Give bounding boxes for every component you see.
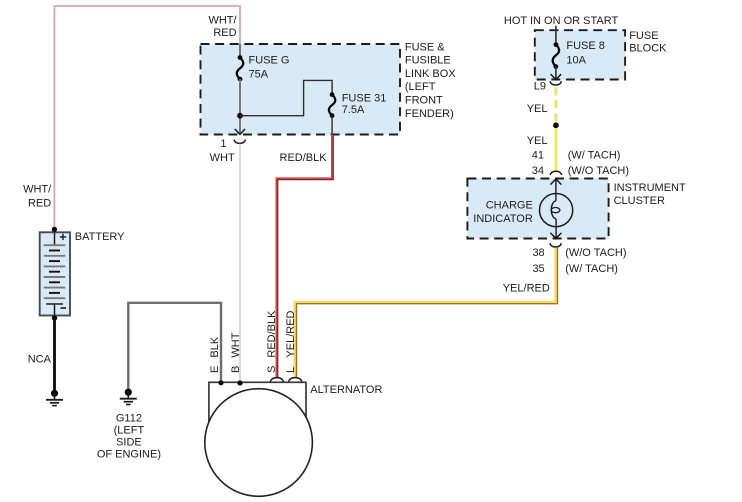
- fuse & fusible link box: [201, 44, 401, 135]
- label INSTRUMENT CLUSTER: [614, 182, 686, 207]
- svg-text:RED: RED: [213, 27, 236, 39]
- svg-text:WHT: WHT: [230, 332, 242, 357]
- charge indicator lamp: [540, 194, 573, 239]
- svg-text:35: 35: [532, 263, 544, 275]
- svg-text:FUSE: FUSE: [629, 30, 658, 42]
- wire YEL dashed: [554, 88, 557, 123]
- battery bottom terminal dot: [52, 315, 57, 320]
- svg-text:(W/O TACH): (W/O TACH): [565, 247, 626, 259]
- pin 34 arrow into cluster: [550, 179, 561, 201]
- alternator body: [205, 382, 313, 496]
- svg-text:HOT IN ON OR START: HOT IN ON OR START: [504, 15, 619, 27]
- svg-text:RED/BLK: RED/BLK: [266, 310, 278, 358]
- svg-text:BATTERY: BATTERY: [75, 231, 125, 243]
- svg-text:E: E: [209, 366, 221, 373]
- pin 38 connector: [550, 243, 561, 247]
- pin 1 arrow: [235, 129, 245, 134]
- label WHT/RED top: [208, 15, 237, 39]
- wire E BLK to G112: [128, 303, 221, 390]
- junction dot in fuse box: [237, 113, 243, 119]
- connector L: [289, 378, 302, 382]
- pin 1 connector: [234, 140, 245, 144]
- svg-text:FUSE &: FUSE &: [405, 41, 445, 53]
- svg-text:38: 38: [532, 247, 544, 259]
- svg-text:G112: G112: [116, 413, 142, 425]
- wire WHT/RED from battery to fuse box: [54, 6, 240, 230]
- wire NCA black: [53, 318, 56, 392]
- wire lead into fuse G: [239, 44, 241, 58]
- svg-text:FUSE 31: FUSE 31: [342, 93, 387, 105]
- label FUSE 8 10A: [566, 40, 605, 66]
- label CHARGE INDICATOR: [473, 200, 533, 226]
- svg-text:INSTRUMENT: INSTRUMENT: [614, 182, 686, 194]
- L9 connector: [550, 81, 561, 85]
- wire stub hot to fuse 8: [555, 26, 557, 45]
- svg-text:FUSE 8: FUSE 8: [566, 40, 605, 52]
- svg-text:L9: L9: [534, 81, 546, 93]
- svg-text:BLOCK: BLOCK: [629, 43, 667, 55]
- fuse G: [237, 55, 243, 81]
- svg-text:CLUSTER: CLUSTER: [614, 195, 665, 207]
- svg-text:7.5A: 7.5A: [342, 104, 365, 116]
- svg-text:FRONT: FRONT: [405, 95, 443, 107]
- svg-text:B: B: [230, 366, 242, 373]
- instrument cluster box: [467, 179, 608, 239]
- svg-text:WHT: WHT: [210, 152, 235, 164]
- svg-text:1: 1: [220, 138, 226, 150]
- svg-text:75A: 75A: [249, 68, 269, 80]
- alternator B terminal dot: [237, 380, 242, 385]
- svg-text:FUSE G: FUSE G: [249, 54, 290, 66]
- svg-text:INDICATOR: INDICATOR: [473, 213, 533, 225]
- pin 38 arrow out of cluster: [550, 233, 561, 239]
- label G112 (LEFT SIDE OF ENGINE): [97, 413, 161, 461]
- wire lead fuse 8 to L9 arrow: [555, 67, 557, 80]
- svg-text:WHT/: WHT/: [23, 183, 52, 195]
- fuse 8: [553, 42, 559, 69]
- svg-text:ALTERNATOR: ALTERNATOR: [310, 384, 382, 396]
- pin 34 connector: [550, 171, 561, 175]
- svg-text:RED/BLK: RED/BLK: [280, 152, 328, 164]
- svg-text:(LEFT: (LEFT: [405, 81, 436, 93]
- svg-text:YEL/RED: YEL/RED: [285, 310, 297, 357]
- label FUSE 31 7.5A: [342, 93, 387, 117]
- svg-text:41: 41: [532, 150, 544, 162]
- fuse block box: [535, 30, 625, 79]
- wire WHT to alternator B: [239, 144, 241, 383]
- svg-text:LINK BOX: LINK BOX: [405, 68, 456, 80]
- wire RED/BLK: [277, 135, 333, 378]
- wire lead fuse G to pin 1 arrow: [239, 79, 241, 133]
- ground battery: [46, 390, 63, 406]
- svg-text:FUSIBLE: FUSIBLE: [405, 55, 451, 67]
- svg-text:OF ENGINE): OF ENGINE): [97, 449, 161, 461]
- connector S: [270, 378, 283, 382]
- svg-text:CHARGE: CHARGE: [486, 200, 533, 212]
- svg-text:S: S: [266, 366, 278, 373]
- svg-text:(W/O TACH): (W/O TACH): [568, 165, 629, 177]
- svg-text:YEL: YEL: [527, 135, 548, 147]
- wire YEL/RED: [295, 248, 558, 378]
- svg-text:34: 34: [532, 165, 544, 177]
- battery: [40, 232, 70, 315]
- svg-text:(W/ TACH): (W/ TACH): [568, 150, 621, 162]
- label FUSE & FUSIBLE LINK BOX (LEFT FRONT FENDER): [405, 41, 456, 120]
- junction dot YEL: [553, 122, 559, 128]
- label FUSE G 75A: [249, 54, 290, 80]
- svg-text:WHT/: WHT/: [208, 15, 237, 27]
- wire link junction to fuse 31: [240, 80, 332, 115]
- svg-text:YEL: YEL: [527, 103, 548, 115]
- battery top terminal dot: [52, 227, 57, 232]
- label WHT/RED left: [23, 183, 52, 209]
- svg-text:YEL/RED: YEL/RED: [503, 282, 550, 294]
- alternator E terminal dot: [218, 380, 223, 385]
- svg-text:FENDER): FENDER): [405, 108, 454, 120]
- label FUSE BLOCK: [629, 30, 667, 55]
- svg-text:RED: RED: [28, 197, 51, 209]
- svg-text:(LEFT: (LEFT: [114, 425, 145, 437]
- svg-text:NCA: NCA: [28, 353, 52, 365]
- svg-text:SIDE: SIDE: [116, 437, 142, 449]
- wire YEL solid: [554, 128, 557, 172]
- ground G112: [120, 389, 137, 405]
- svg-text:BLK: BLK: [209, 336, 221, 357]
- svg-text:(W/ TACH): (W/ TACH): [565, 263, 618, 275]
- L9 arrow: [551, 74, 562, 79]
- wire lead fuse 31 to box edge: [331, 116, 333, 135]
- svg-text:L: L: [285, 367, 297, 373]
- fuse 31: [329, 92, 335, 118]
- svg-text:10A: 10A: [566, 54, 586, 66]
